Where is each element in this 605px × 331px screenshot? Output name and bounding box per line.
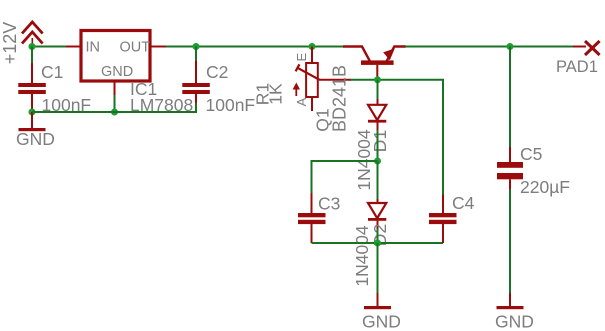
wire IC1 GND down <box>114 95 116 112</box>
svg-text:+12V: +12V <box>0 22 20 65</box>
transistor Q1 collector lead <box>343 47 370 62</box>
svg-text:1N4004: 1N4004 <box>352 225 372 287</box>
ground GND1 <box>19 112 46 131</box>
transistor Q1 base lead <box>376 65 378 80</box>
transistor Q1 emitter lead <box>387 47 406 62</box>
op-amp IC1 box (regulator LM7808) <box>81 31 150 82</box>
svg-text:C2: C2 <box>206 62 228 82</box>
resistor R1 (trimmer) <box>293 47 320 112</box>
wire D1 top <box>377 80 379 100</box>
pin PAD1 lead <box>573 46 586 48</box>
svg-text:PAD1: PAD1 <box>556 58 598 76</box>
svg-text:BD241B: BD241B <box>330 65 350 132</box>
wire C5 bottom to GND3 <box>509 190 511 295</box>
node junction D1/D2 <box>374 158 381 165</box>
svg-text:1K: 1K <box>266 83 286 105</box>
svg-text:C1: C1 <box>41 62 63 82</box>
wire D1 bottom <box>377 130 379 161</box>
svg-text:GND: GND <box>495 312 534 331</box>
capacitor C4 <box>429 195 457 244</box>
svg-text:A: A <box>294 97 309 106</box>
wire bottom C3 to C4 <box>312 242 444 244</box>
node junction +12V/C1 <box>29 43 36 50</box>
svg-text:C4: C4 <box>452 193 475 213</box>
svg-text:100nF: 100nF <box>206 95 256 115</box>
node junction IC1 GND <box>111 109 118 116</box>
wire D2 junction to GND2 <box>377 243 379 294</box>
node junction C5 top <box>507 43 514 50</box>
capacitor C5 (polarized) <box>497 147 523 191</box>
svg-text:C3: C3 <box>318 194 340 214</box>
svg-text:1N4004: 1N4004 <box>354 129 374 191</box>
svg-text:E: E <box>294 53 309 62</box>
wire +12V to IN <box>32 46 67 48</box>
node junction R1 top <box>309 43 316 50</box>
wire D2 top <box>377 161 379 200</box>
node junction Q1 base <box>374 76 381 83</box>
capacitor C3 <box>298 193 326 243</box>
svg-text:OUT: OUT <box>120 40 151 56</box>
svg-text:GND: GND <box>362 312 401 331</box>
svg-text:220µF: 220µF <box>520 177 570 197</box>
node junction C2 top <box>193 43 200 50</box>
wire wiper to Q1 base and C4 branch <box>350 80 443 195</box>
wire ground rail C1 to C2 <box>32 111 196 113</box>
diode D2 <box>368 199 386 230</box>
pad PAD1 X <box>585 41 600 55</box>
pin GND lead of IC1 <box>114 81 116 96</box>
ground GND2 <box>364 293 391 309</box>
wire mid to C3 <box>312 161 378 194</box>
svg-text:GND: GND <box>16 129 55 149</box>
svg-text:IN: IN <box>86 40 101 56</box>
node junction C1/GND rail <box>29 109 36 116</box>
capacitor C1 <box>18 63 46 112</box>
wire D2 bottom <box>377 229 379 244</box>
svg-text:GND: GND <box>101 64 133 80</box>
transistor Q1 base bar <box>361 60 394 65</box>
pin IN lead <box>66 46 81 48</box>
transistor Q1 emitter arrow <box>383 48 395 60</box>
wire OUT rail <box>166 46 344 48</box>
ground GND3 <box>497 293 524 309</box>
diode D1 <box>368 99 386 131</box>
svg-text:C5: C5 <box>520 144 542 164</box>
wire C5 top <box>509 47 511 148</box>
supply +12V <box>22 22 43 47</box>
wire R1 wiper to base <box>319 79 351 81</box>
wire C1 top <box>31 47 33 65</box>
node junction D2 bottom <box>374 240 381 247</box>
wire emitter to PAD1 <box>405 46 574 48</box>
capacitor C2 <box>182 47 210 114</box>
pin OUT lead <box>150 46 167 48</box>
wire C2 top <box>62 46 196 48</box>
